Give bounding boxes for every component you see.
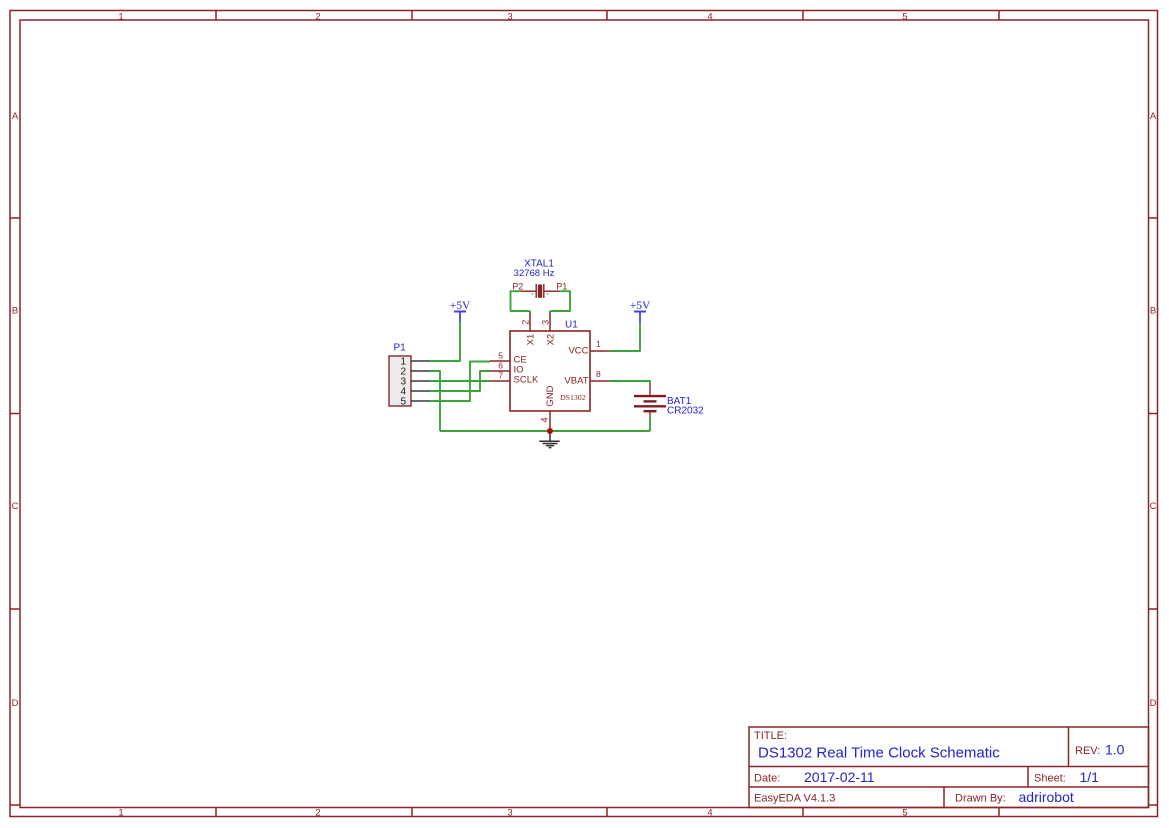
svg-text:5: 5	[902, 808, 907, 819]
svg-text:2: 2	[315, 808, 320, 819]
svg-text:EasyEDA V4.1.3: EasyEDA V4.1.3	[754, 793, 835, 805]
svg-text:C: C	[12, 501, 19, 512]
P1 pins (black)	[411, 361, 430, 401]
title block	[749, 727, 1149, 808]
svg-text:B: B	[12, 306, 18, 317]
connector P1 body	[389, 356, 411, 406]
svg-text:X1: X1	[526, 334, 537, 346]
svg-text:P1: P1	[556, 282, 567, 292]
svg-text:VCC: VCC	[568, 346, 588, 357]
junction dot	[547, 428, 553, 434]
svg-text:Drawn By:: Drawn By:	[955, 793, 1006, 805]
wire P1.3 to SCLK	[430, 380, 490, 382]
svg-text:5: 5	[498, 351, 503, 361]
svg-text:SCLK: SCLK	[514, 375, 539, 386]
svg-text:1: 1	[596, 339, 601, 349]
wire GND rail	[440, 430, 650, 432]
wire VBAT to BAT1	[610, 381, 650, 384]
svg-text:C: C	[1150, 501, 1157, 512]
svg-text:8: 8	[596, 369, 601, 379]
svg-text:REV:: REV:	[1075, 745, 1100, 757]
svg-text:U1: U1	[565, 320, 578, 331]
svg-text:2: 2	[520, 320, 530, 325]
svg-text:+5V: +5V	[630, 300, 651, 312]
svg-text:D: D	[1150, 698, 1157, 709]
svg-text:B: B	[1150, 306, 1156, 317]
svg-text:5: 5	[902, 12, 907, 23]
wire P1.5 to CE	[430, 362, 490, 402]
wires (green)	[430, 291, 650, 431]
svg-text:A: A	[1150, 111, 1157, 122]
svg-text:Date:: Date:	[754, 773, 780, 785]
svg-text:+5V: +5V	[450, 300, 471, 312]
battery BAT1	[649, 384, 651, 418]
wire crystal loop: P1 to X2	[550, 291, 570, 311]
svg-text:32768 Hz: 32768 Hz	[514, 268, 555, 279]
svg-text:D: D	[12, 698, 19, 709]
svg-text:3: 3	[541, 320, 551, 325]
op IC U1 body DS1302	[510, 331, 590, 411]
svg-text:A: A	[12, 111, 19, 122]
svg-text:7: 7	[498, 371, 503, 381]
svg-text:DS1302 Real Time Clock Schemat: DS1302 Real Time Clock Schematic	[758, 745, 1000, 762]
wire crystal loop: X1 to P2	[511, 291, 531, 311]
wire P1.2 to GND rail	[430, 371, 440, 431]
power flag +5V (left)	[454, 312, 466, 322]
power flag +5V (right)	[634, 312, 646, 323]
svg-text:adrirobot: adrirobot	[1019, 789, 1074, 805]
svg-text:Sheet:: Sheet:	[1034, 773, 1066, 785]
svg-text:P2: P2	[512, 282, 523, 292]
wire BAT1 to GND rail	[649, 417, 651, 431]
svg-text:2: 2	[315, 12, 320, 23]
svg-text:DS1302: DS1302	[560, 393, 586, 402]
svg-text:3: 3	[507, 808, 512, 819]
svg-text:P1: P1	[394, 343, 407, 354]
U1 pins (red)	[490, 311, 610, 431]
svg-text:5: 5	[400, 396, 406, 407]
svg-text:VBAT: VBAT	[564, 376, 588, 387]
svg-text:2017-02-11: 2017-02-11	[804, 769, 875, 785]
svg-text:1.0: 1.0	[1105, 742, 1125, 758]
svg-text:4: 4	[539, 417, 550, 422]
svg-text:4: 4	[707, 12, 712, 23]
svg-text:1: 1	[118, 12, 123, 23]
wire VCC to +5V	[610, 322, 640, 351]
U1 pin names	[514, 334, 589, 407]
svg-text:6: 6	[498, 361, 503, 371]
svg-text:CR2032: CR2032	[667, 406, 704, 417]
svg-text:TITLE:: TITLE:	[754, 730, 787, 742]
svg-text:4: 4	[707, 808, 712, 819]
crystal XTAL1	[520, 284, 560, 298]
P1 pad numbers 1-5	[400, 356, 406, 407]
svg-text:3: 3	[507, 12, 512, 23]
ground symbol	[539, 431, 559, 448]
svg-text:1/1: 1/1	[1080, 769, 1100, 785]
svg-text:X2: X2	[546, 334, 557, 346]
wire P1.1 to +5V	[430, 321, 460, 361]
svg-text:1: 1	[118, 808, 123, 819]
U1 pin numbers	[498, 320, 601, 423]
svg-text:GND: GND	[545, 385, 556, 406]
wire P1.4 to IO	[430, 371, 490, 391]
